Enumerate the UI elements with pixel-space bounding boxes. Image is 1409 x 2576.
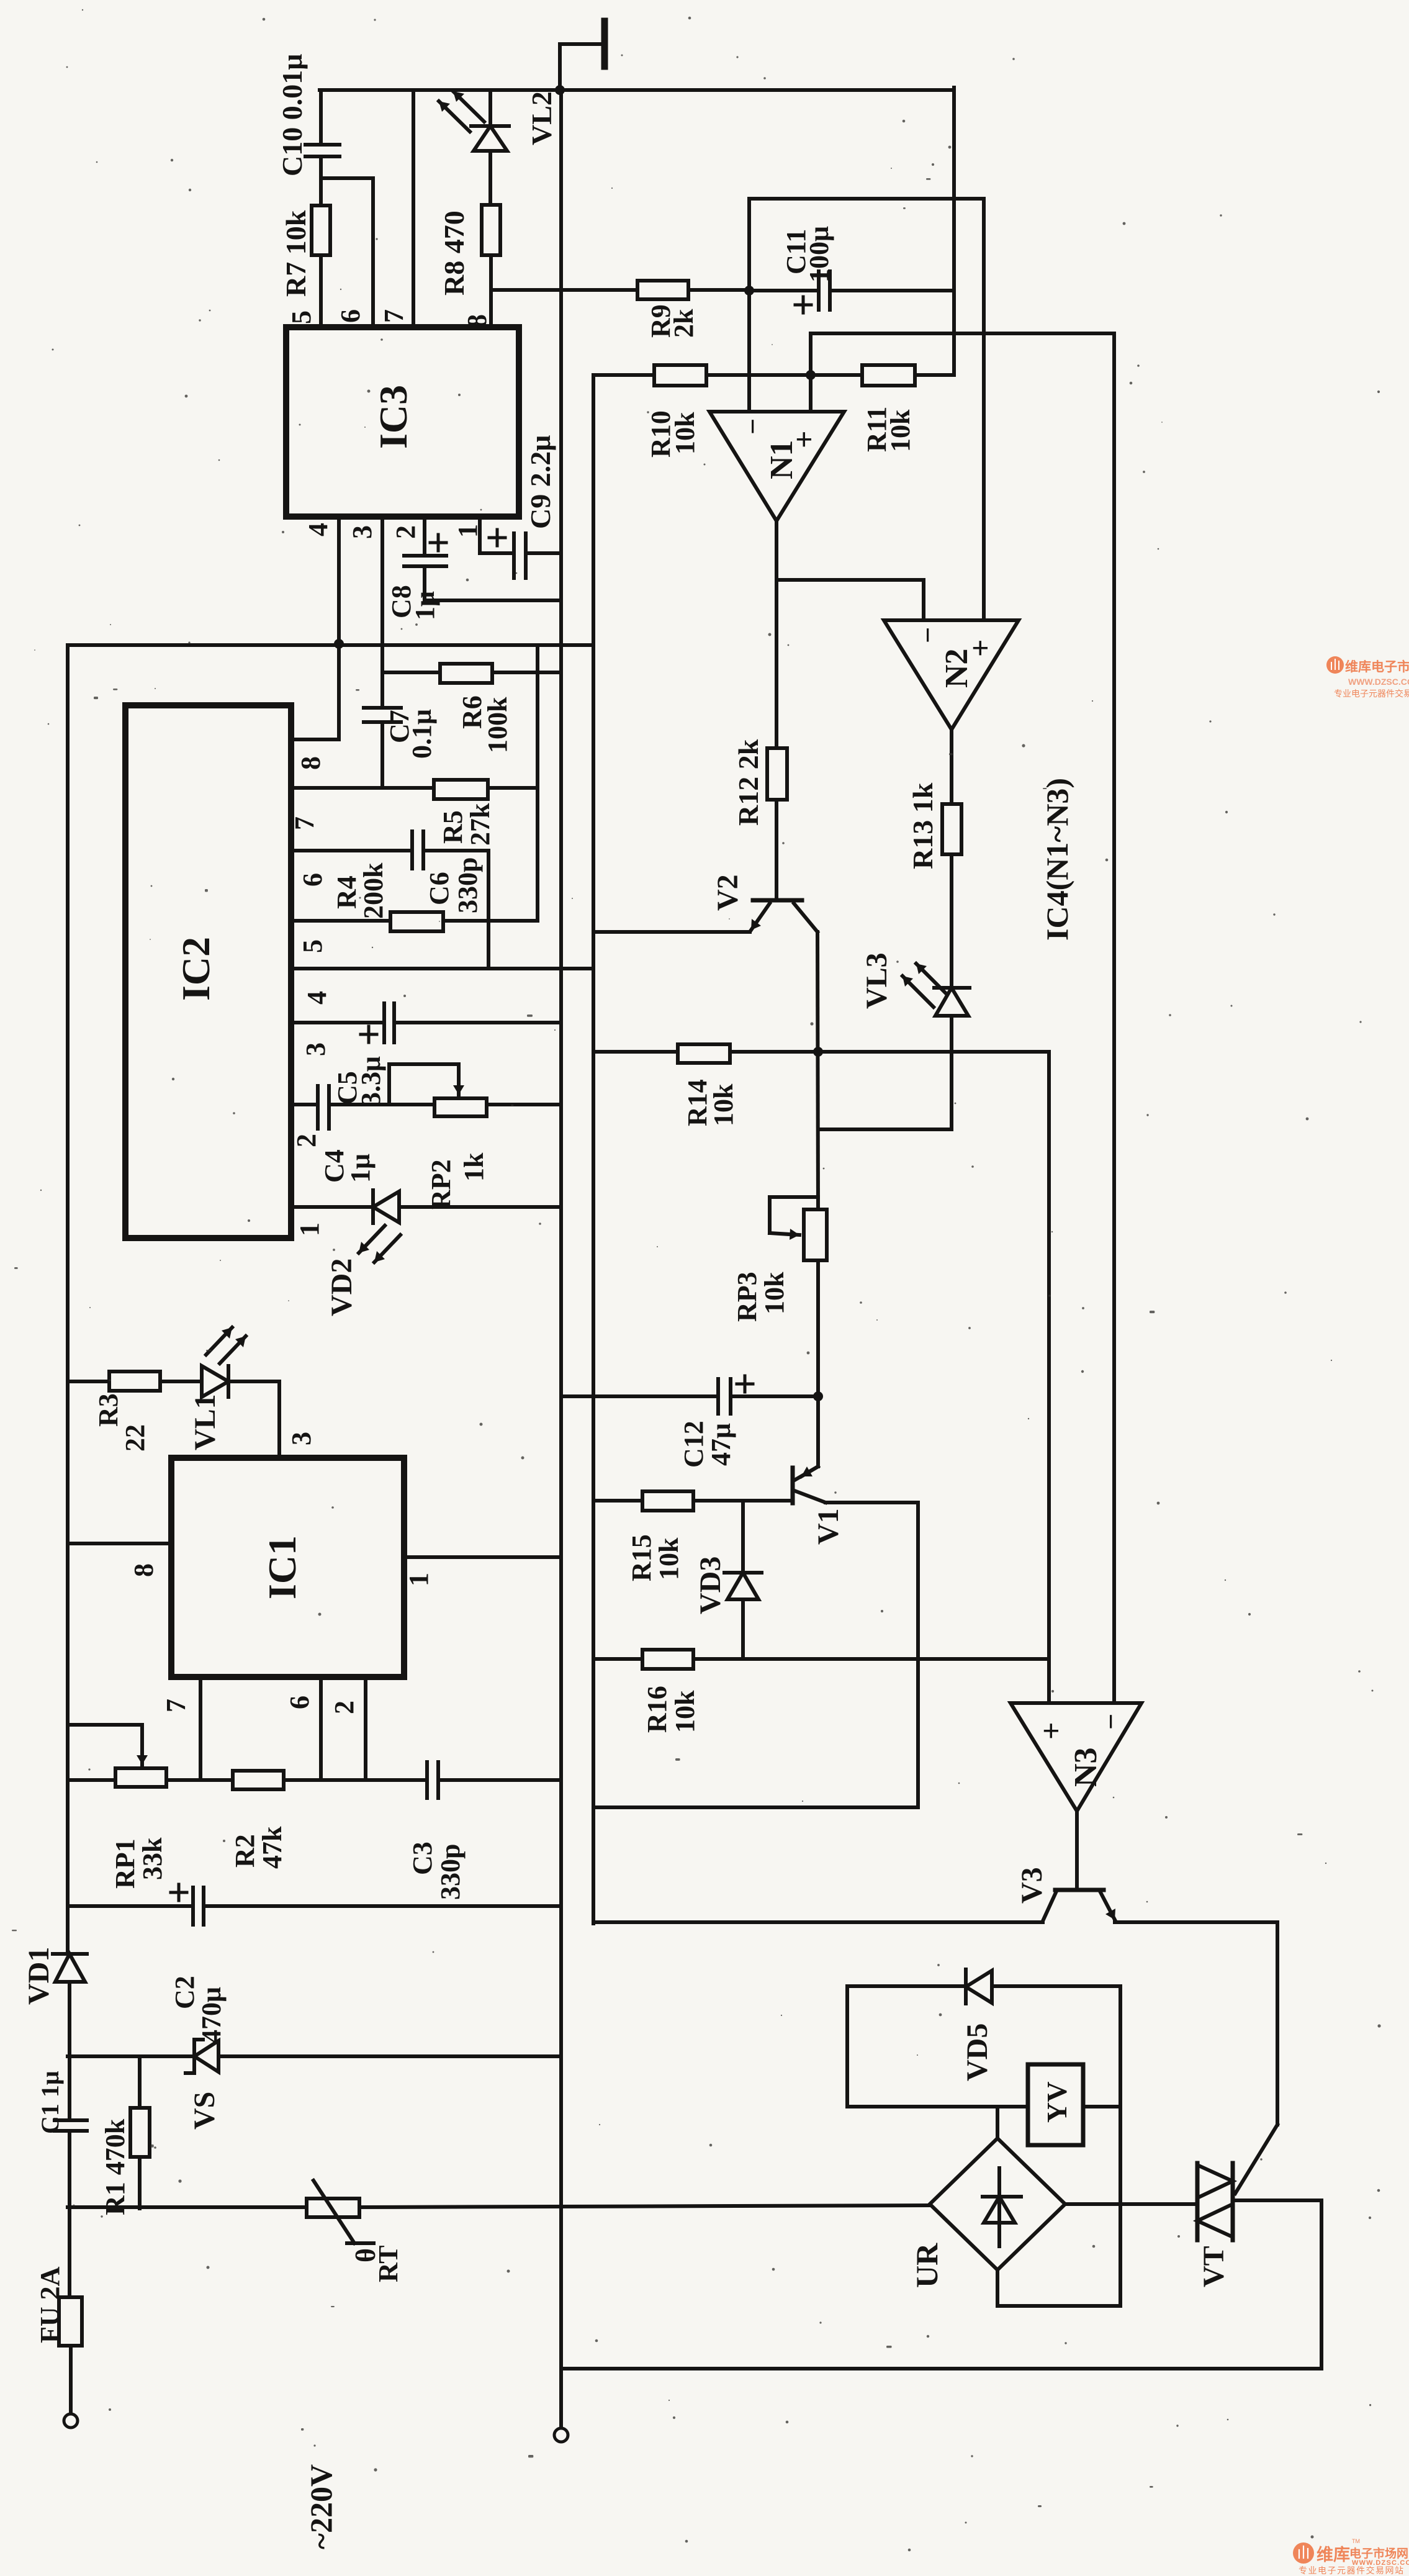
wire R14 to node bbox=[730, 1050, 818, 1054]
label R6 100k bbox=[457, 695, 513, 753]
label N1 bbox=[764, 440, 799, 479]
svg-text:1: 1 bbox=[403, 1573, 434, 1586]
label C4 1u bbox=[319, 1149, 376, 1183]
svg-text:8: 8 bbox=[295, 756, 326, 770]
label pin7 IC3 bbox=[379, 309, 409, 323]
led VD2 bbox=[373, 1190, 561, 1223]
wire IC2 pin3 bbox=[291, 1021, 384, 1024]
svg-text:2: 2 bbox=[390, 525, 421, 539]
capacitor C12 bbox=[718, 1376, 818, 1414]
wire IC2 pin1 bbox=[291, 1205, 373, 1209]
label N1 minus bbox=[737, 418, 768, 435]
capacitor C11 bbox=[795, 271, 830, 313]
label VD2 bbox=[325, 1259, 358, 1316]
label R12 2k bbox=[732, 739, 764, 826]
label pin7 IC2 bbox=[289, 816, 320, 830]
capacitor C1 bbox=[55, 2120, 87, 2297]
fuse FU bbox=[59, 2297, 82, 2346]
wire RP2 to rail bbox=[487, 1103, 561, 1106]
label R11 10k bbox=[862, 407, 916, 452]
label pin2 IC1 bbox=[329, 1701, 359, 1714]
label RP3 10k bbox=[732, 1272, 790, 1322]
wire N3 plus riser bbox=[1047, 1052, 1051, 1703]
led VL3 bbox=[934, 988, 970, 1129]
wire node to C11 bbox=[749, 289, 819, 292]
svg-text:330p: 330p bbox=[435, 1844, 466, 1900]
label pin3 IC2 bbox=[300, 1042, 331, 1056]
svg-text:1μ: 1μ bbox=[410, 591, 440, 620]
wire C8 to rail bbox=[425, 599, 561, 602]
svg-text:10k: 10k bbox=[670, 412, 700, 454]
svg-text:V3: V3 bbox=[1015, 1867, 1048, 1904]
watermark bottom right bbox=[1293, 2538, 1409, 2575]
wire right rail x1537 bbox=[952, 88, 956, 375]
label pin1 IC2 bbox=[294, 1222, 325, 1236]
op-amp box IC3 bbox=[286, 327, 519, 517]
label IC4(N1-N3) bbox=[1040, 778, 1074, 941]
label R15 10k bbox=[626, 1534, 684, 1581]
resistor R16 bbox=[642, 1650, 693, 1669]
ground symbol bbox=[560, 21, 605, 90]
capacitor C6 bbox=[412, 831, 423, 869]
wire R11 to rail bbox=[915, 373, 954, 377]
label pin8 IC2 bbox=[295, 756, 326, 770]
label 220V bbox=[304, 2464, 338, 2549]
svg-text:R15: R15 bbox=[626, 1534, 657, 1581]
wire RT row bbox=[68, 2205, 307, 2209]
wire y537 to right bbox=[811, 332, 1114, 335]
wire VL1 to pin3 IC1 bbox=[277, 1381, 281, 1458]
svg-text:3: 3 bbox=[300, 1042, 331, 1056]
label C10 0.01u bbox=[276, 54, 308, 176]
wire pin4 IC3 bbox=[337, 517, 341, 644]
svg-text:C2: C2 bbox=[169, 1976, 200, 2009]
wire VD5 box top bbox=[847, 1984, 966, 1988]
wire IC2 pin5 bbox=[291, 919, 390, 923]
wire left rail top bbox=[66, 645, 70, 1954]
wire R2 to C3 bbox=[284, 1778, 427, 1782]
svg-text:FU 2A: FU 2A bbox=[35, 2266, 65, 2343]
wire C11 to right rail bbox=[830, 289, 954, 292]
wire node to N3 riser bbox=[818, 1050, 1049, 1054]
wire VD5 box left bbox=[845, 1986, 849, 2107]
svg-text:VS: VS bbox=[188, 2092, 221, 2130]
svg-text:VL3: VL3 bbox=[860, 952, 893, 1009]
wire R3 to VL1 bbox=[160, 1380, 202, 1383]
svg-text:470μ: 470μ bbox=[196, 1987, 227, 2043]
wire R10-R11 bbox=[706, 373, 862, 377]
svg-text:10k: 10k bbox=[654, 1537, 684, 1580]
label C2 470u bbox=[169, 1976, 227, 2043]
svg-text:R4: R4 bbox=[331, 875, 362, 909]
wire N1 plus riser bbox=[809, 333, 813, 412]
label pin6 IC2 bbox=[297, 873, 328, 887]
label VL3 bbox=[860, 952, 893, 1009]
wire V1 collector bbox=[826, 1503, 918, 1807]
wire IC2 pin8 bbox=[291, 738, 339, 741]
label VD5 bbox=[961, 2023, 994, 2081]
wire pin3 IC3 bbox=[380, 517, 384, 708]
svg-text:VD5: VD5 bbox=[961, 2023, 994, 2081]
svg-text:10k: 10k bbox=[708, 1083, 739, 1126]
svg-text:47μ: 47μ bbox=[706, 1423, 736, 1466]
label VT bbox=[1197, 2246, 1230, 2287]
wire V1 emitter riser bbox=[816, 1396, 820, 1467]
svg-text:RP1: RP1 bbox=[110, 1838, 140, 1889]
label R2 47k bbox=[230, 1826, 287, 1869]
svg-text:VT: VT bbox=[1197, 2246, 1230, 2287]
node pin4-pin8 bbox=[334, 639, 344, 649]
svg-text:RP2: RP2 bbox=[426, 1159, 456, 1209]
capacitor C3 bbox=[427, 1762, 561, 1798]
label VL2 bbox=[526, 91, 557, 145]
wire main rail x904 bbox=[559, 90, 563, 2428]
wire pin7 IC3 bbox=[412, 90, 415, 327]
label VS bbox=[188, 2092, 221, 2130]
svg-text:VD3: VD3 bbox=[694, 1557, 727, 1614]
label R14 10k bbox=[682, 1079, 739, 1126]
wire IC1 pin6 bbox=[319, 1677, 323, 1780]
svg-text:4: 4 bbox=[303, 523, 333, 536]
svg-text:N2: N2 bbox=[939, 648, 975, 688]
wire RT to UR bbox=[359, 2205, 930, 2207]
label pin2 IC3 bbox=[390, 525, 421, 539]
label RT theta bbox=[351, 2245, 403, 2282]
wire IC2 pin8 riser bbox=[337, 644, 341, 739]
svg-text:N1: N1 bbox=[764, 440, 799, 479]
led VL1 arrows bbox=[206, 1327, 246, 1363]
svg-text:专业电子元器件交易网: 专业电子元器件交易网 bbox=[1334, 689, 1409, 698]
label C8 1u bbox=[386, 585, 440, 620]
transistor V2 bbox=[751, 900, 817, 932]
svg-text:3.3μ: 3.3μ bbox=[356, 1056, 386, 1106]
node R9-C11 bbox=[744, 286, 754, 296]
svg-text:V1: V1 bbox=[812, 1508, 845, 1545]
op-amp box IC1 bbox=[171, 1458, 404, 1677]
svg-text:22: 22 bbox=[120, 1424, 150, 1452]
label N3 bbox=[1068, 1747, 1104, 1787]
label pin4 IC3 bbox=[303, 523, 333, 536]
svg-text:R7 10k: R7 10k bbox=[280, 210, 312, 297]
svg-text:C10 0.01μ: C10 0.01μ bbox=[276, 54, 308, 176]
label IC3 bbox=[371, 385, 415, 449]
led VL1 bbox=[202, 1366, 279, 1397]
svg-text:VD1: VD1 bbox=[22, 1947, 55, 2005]
node N1 plus bbox=[806, 370, 816, 380]
svg-text:WWW.DZSC.COM: WWW.DZSC.COM bbox=[1348, 677, 1409, 687]
svg-text:C1 1μ: C1 1μ bbox=[36, 2071, 64, 2134]
capacitor C2 bbox=[171, 1884, 561, 1925]
svg-text:R3: R3 bbox=[93, 1393, 124, 1427]
label pin3 IC3 bbox=[347, 525, 377, 539]
label pin2 IC2 bbox=[291, 1134, 322, 1147]
svg-text:R8 470: R8 470 bbox=[438, 210, 470, 296]
svg-text:1μ: 1μ bbox=[345, 1154, 376, 1183]
wire V2 emitter bbox=[593, 930, 750, 934]
label C11 100u bbox=[781, 226, 834, 282]
resistor R4 bbox=[390, 912, 443, 931]
label N2 plus bbox=[963, 639, 997, 658]
wire IC2 pin6 bbox=[291, 849, 412, 852]
svg-text:6: 6 bbox=[284, 1696, 315, 1709]
wire IC1 pin1 bbox=[404, 1555, 561, 1559]
wire C10-R7 jog bbox=[321, 178, 373, 327]
svg-text:R13 1k: R13 1k bbox=[907, 782, 939, 869]
label C1 1u bbox=[36, 2071, 64, 2134]
label VD3 bbox=[694, 1557, 727, 1614]
label R13 1k bbox=[907, 782, 939, 869]
label V2 bbox=[711, 874, 744, 911]
wire right rail x1795 bbox=[1112, 333, 1116, 1703]
svg-text:C3: C3 bbox=[407, 1842, 438, 1875]
label VL1 bbox=[189, 1394, 222, 1450]
label N2 bbox=[939, 648, 975, 688]
wire y320 link bbox=[749, 197, 984, 201]
led VD2 arrows bbox=[359, 1226, 400, 1262]
wire N1 out to N2 bbox=[777, 580, 924, 620]
label C3 330p bbox=[407, 1842, 466, 1900]
wire pin1 IC3 bbox=[480, 517, 511, 553]
svg-text:RT: RT bbox=[373, 2245, 403, 2282]
label RP1 33k bbox=[110, 1837, 168, 1889]
wire RP1 row bbox=[68, 1778, 115, 1782]
label pin1 IC1 bbox=[403, 1573, 434, 1586]
svg-text:IC2: IC2 bbox=[174, 937, 218, 1001]
svg-text:5: 5 bbox=[297, 939, 328, 953]
op-amp box IC2 bbox=[125, 705, 291, 1238]
svg-text:2: 2 bbox=[329, 1701, 359, 1714]
diode VD5 bbox=[966, 1969, 1120, 2004]
resistor R10 bbox=[654, 365, 706, 386]
wire RP1 to R2 bbox=[166, 1778, 233, 1782]
svg-text:6: 6 bbox=[335, 309, 366, 323]
svg-text:YV: YV bbox=[1041, 2082, 1073, 2123]
label N1 plus bbox=[786, 431, 821, 449]
diode VD1 bbox=[53, 1954, 87, 2120]
wire R14 from rail bbox=[593, 1050, 678, 1054]
bridge UR bbox=[930, 2138, 1065, 2270]
label pin1 IC3 bbox=[452, 524, 483, 538]
label pin6 IC1 bbox=[284, 1696, 315, 1709]
svg-text:R16: R16 bbox=[642, 1686, 672, 1733]
wire V3 rail left bbox=[593, 1922, 1043, 1923]
resistor R1 bbox=[130, 2056, 150, 2208]
label IC1 bbox=[260, 1535, 304, 1599]
wire R12 to V2 bbox=[775, 800, 778, 900]
svg-text:+: + bbox=[1033, 1722, 1068, 1740]
label pin5 IC2 bbox=[297, 939, 328, 953]
wire IC2 pin4 bbox=[291, 967, 593, 970]
svg-text:6: 6 bbox=[297, 873, 328, 887]
resistor R2 bbox=[233, 1771, 284, 1789]
label pin5 IC3 bbox=[286, 310, 317, 324]
svg-text:维库电子市场网: 维库电子市场网 bbox=[1345, 659, 1409, 674]
label N2 minus bbox=[912, 627, 943, 643]
capacitor C7 bbox=[364, 708, 401, 788]
svg-text:R1 470k: R1 470k bbox=[100, 2118, 130, 2215]
label pin3 IC1 bbox=[286, 1432, 317, 1445]
wire R15 from rail bbox=[593, 1499, 642, 1503]
svg-text:1: 1 bbox=[294, 1222, 325, 1236]
svg-text:3: 3 bbox=[347, 525, 377, 539]
svg-text:N3: N3 bbox=[1068, 1747, 1104, 1787]
svg-text:7: 7 bbox=[289, 816, 320, 830]
transistor V3 bbox=[1043, 1890, 1115, 1921]
label C5 3.3u bbox=[332, 1056, 386, 1106]
wire FU leads bbox=[70, 2208, 71, 2413]
label V3 bbox=[1015, 1867, 1048, 1904]
label N3 minus bbox=[1095, 1714, 1127, 1730]
svg-text:0.1μ: 0.1μ bbox=[407, 709, 437, 759]
svg-text:1: 1 bbox=[452, 524, 483, 538]
svg-text:VD2: VD2 bbox=[325, 1259, 358, 1316]
svg-text:1k: 1k bbox=[459, 1152, 489, 1182]
resistor R3 bbox=[109, 1372, 160, 1391]
svg-text:C6: C6 bbox=[424, 872, 454, 905]
label C7 0.1u bbox=[384, 709, 437, 759]
wire VT right bbox=[1233, 2200, 1321, 2369]
svg-text:4: 4 bbox=[302, 991, 332, 1005]
capacitor C9 bbox=[489, 530, 561, 578]
led VL3 arrows bbox=[903, 964, 947, 1007]
wire R10 left corner bbox=[593, 373, 654, 377]
watermark right edge bbox=[1326, 656, 1409, 698]
svg-text:C12: C12 bbox=[678, 1421, 709, 1468]
resistor R9 bbox=[637, 281, 688, 299]
label pin8 IC3 bbox=[462, 314, 492, 328]
op-amp N2 bbox=[884, 620, 1019, 730]
wire UR bottom L bbox=[997, 2270, 1120, 2306]
potentiometer RP3 bbox=[770, 1197, 827, 1396]
wire VL2 drop bbox=[488, 90, 492, 126]
svg-text:200k: 200k bbox=[358, 862, 389, 919]
wire R16 from rail bbox=[593, 1657, 642, 1661]
resistor R14 bbox=[678, 1044, 730, 1063]
svg-text:VL2: VL2 bbox=[526, 91, 557, 145]
svg-text:R12 2k: R12 2k bbox=[732, 739, 764, 826]
wire R5 to x866 bbox=[488, 786, 538, 790]
node C12-RP3-V1 bbox=[813, 1391, 823, 1401]
svg-text:2k: 2k bbox=[668, 309, 699, 338]
op-amp N3 bbox=[1011, 1703, 1141, 1811]
wire VD5 box right bbox=[1119, 1986, 1122, 2306]
svg-text:−: − bbox=[737, 418, 768, 435]
svg-text:330p: 330p bbox=[452, 857, 483, 913]
label R9 2k bbox=[646, 304, 699, 338]
thermistor RT bbox=[307, 2181, 374, 2243]
svg-text:RP3: RP3 bbox=[732, 1272, 762, 1322]
resistor R8 bbox=[482, 205, 500, 327]
wire C2 row bbox=[68, 1904, 193, 1908]
label RP2 1k bbox=[426, 1152, 489, 1209]
wire IC2 pin2 to C4 bbox=[291, 1103, 318, 1106]
wire IC1 pin2 bbox=[364, 1677, 367, 1780]
terminal left bbox=[64, 2414, 78, 2428]
svg-text:47k: 47k bbox=[257, 1826, 287, 1869]
label R8 470 bbox=[438, 210, 470, 296]
diode VD3 bbox=[724, 1501, 762, 1659]
capacitor C4 bbox=[318, 1086, 434, 1129]
node ground junction bbox=[555, 85, 565, 95]
label pin6 IC3 bbox=[335, 309, 366, 323]
wire R6 to rail bbox=[492, 671, 561, 674]
label YV bbox=[1041, 2082, 1073, 2123]
svg-text:专业电子元器件交易网站: 专业电子元器件交易网站 bbox=[1299, 2565, 1405, 2575]
resistor R7 bbox=[312, 206, 330, 327]
wire V2 collector drop bbox=[817, 932, 818, 1209]
svg-text:IC4(N1~N3): IC4(N1~N3) bbox=[1040, 778, 1074, 941]
svg-text:3: 3 bbox=[286, 1432, 317, 1445]
op-amp N1 bbox=[709, 412, 844, 521]
label R1 470k bbox=[100, 2118, 130, 2215]
resistor R13 bbox=[942, 804, 961, 854]
svg-text:VL1: VL1 bbox=[189, 1394, 222, 1450]
svg-text:27k: 27k bbox=[465, 803, 495, 846]
wire VT gate path bbox=[1235, 1922, 1277, 2194]
label VD1 bbox=[22, 1947, 55, 2005]
node V2 collector bbox=[813, 1047, 823, 1057]
wire R8 node to R9 bbox=[491, 288, 637, 292]
wire UR to VT bbox=[1065, 2202, 1197, 2206]
label FU 2A bbox=[35, 2266, 65, 2343]
label R16 10k bbox=[642, 1686, 700, 1733]
svg-text:100k: 100k bbox=[482, 697, 513, 753]
wire bottom rail bbox=[561, 2367, 1321, 2370]
wire R15 to V1 base bbox=[693, 1499, 791, 1503]
wire C6 right bbox=[423, 851, 488, 969]
wire C10 drop bbox=[319, 90, 323, 145]
svg-text:100μ: 100μ bbox=[804, 226, 834, 282]
svg-text:−: − bbox=[1095, 1714, 1127, 1730]
wire y1039 bbox=[68, 643, 593, 647]
wire N2 plus riser bbox=[982, 199, 986, 620]
wire N1 out bbox=[775, 521, 778, 748]
terminal right bbox=[554, 2428, 568, 2442]
wire top rail y145 bbox=[320, 88, 954, 92]
svg-text:−: − bbox=[912, 627, 943, 643]
wire N3 out bbox=[1075, 1811, 1079, 1890]
svg-text:10k: 10k bbox=[759, 1272, 790, 1314]
wire IC2 pin7 bbox=[291, 786, 434, 790]
label R10 10k bbox=[646, 410, 700, 458]
svg-text:TM: TM bbox=[1352, 2538, 1360, 2544]
label V1 bbox=[812, 1508, 845, 1545]
capacitor C8 bbox=[404, 535, 446, 600]
svg-text:7: 7 bbox=[161, 1699, 191, 1712]
wire N2 out bbox=[950, 730, 953, 804]
wire R6 from pin3drop bbox=[382, 671, 440, 674]
resistor R6 bbox=[440, 664, 492, 683]
capacitor C5 bbox=[361, 1003, 561, 1042]
svg-text:10k: 10k bbox=[885, 409, 916, 452]
label pin7 IC1 bbox=[161, 1699, 191, 1712]
wire VS row bbox=[68, 2054, 194, 2058]
label R7 10k bbox=[280, 210, 312, 297]
svg-text:33k: 33k bbox=[137, 1837, 168, 1880]
potentiometer RP2 bbox=[389, 1064, 487, 1116]
wire N1 minus riser bbox=[747, 199, 751, 412]
label N3 plus bbox=[1033, 1722, 1068, 1740]
wire IC1 pin8 bbox=[68, 1542, 171, 1545]
wire R9 to node bbox=[688, 288, 749, 292]
svg-text:电子市场网: 电子市场网 bbox=[1349, 2546, 1408, 2560]
svg-text:10k: 10k bbox=[670, 1690, 700, 1733]
wire V3 rail right bbox=[1115, 1920, 1277, 1924]
svg-text:R5: R5 bbox=[438, 810, 468, 844]
svg-text:V2: V2 bbox=[711, 874, 744, 911]
label IC2 bbox=[174, 937, 218, 1001]
resistor R5 bbox=[434, 780, 488, 799]
